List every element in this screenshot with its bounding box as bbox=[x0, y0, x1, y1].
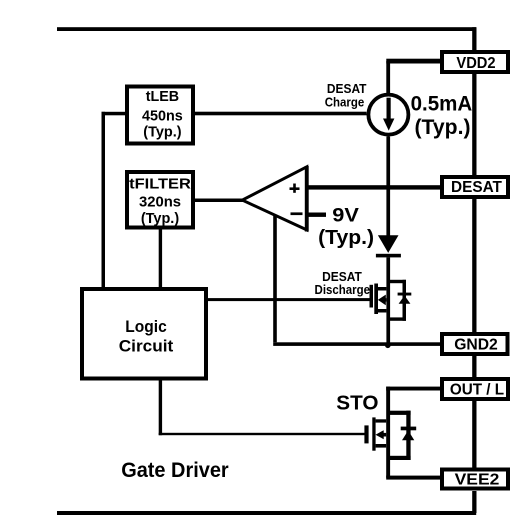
svg-text:(Typ.): (Typ.) bbox=[318, 227, 374, 249]
wire Logic Circuit bottom vertical bbox=[159, 381, 162, 436]
wire STO gate horizontal bbox=[159, 433, 366, 435]
svg-text:tFILTER: tFILTER bbox=[129, 176, 191, 193]
wire bus VDD2 to DESAT bbox=[472, 74, 476, 177]
pin DESAT bbox=[442, 177, 508, 197]
wire comparator - input stub to 9V bbox=[306, 213, 326, 217]
wire current source bottom to diode bbox=[386, 137, 390, 236]
wire left vertical tLEB to Logic Circuit bbox=[102, 112, 106, 287]
block tLEB 450ns (Typ.) bbox=[127, 87, 193, 144]
label 9V (Typ.) reference bbox=[318, 205, 374, 248]
wire current source top vertical bbox=[386, 61, 390, 94]
label 0.5mA (Typ.) bbox=[411, 93, 473, 139]
wire bus OUT/L to VEE2 bbox=[472, 401, 476, 470]
pin VEE2 bbox=[442, 470, 508, 489]
svg-text:Discharge: Discharge bbox=[315, 282, 371, 297]
wire STO source to VEE2 pin bbox=[386, 476, 442, 480]
svg-text:Charge: Charge bbox=[325, 95, 365, 110]
wire tFILTER bottom to Logic Circuit bbox=[159, 230, 162, 288]
wire comparator output to tFILTER bbox=[195, 199, 243, 203]
current source I1 DESAT charge 0.5mA bbox=[368, 95, 408, 135]
svg-text:Gate Driver: Gate Driver bbox=[121, 459, 229, 482]
svg-text:OUT / L: OUT / L bbox=[450, 382, 504, 399]
wire current source to VDD2 pin bbox=[386, 59, 442, 64]
wire STO drain to OUT/L pin bbox=[386, 387, 442, 391]
wire comparator + input to DESAT pin bbox=[306, 185, 442, 189]
wire tLEB left stub bbox=[102, 112, 127, 116]
wire bottom supply rail bbox=[57, 511, 476, 515]
block tFILTER 320ns (Typ.) bbox=[127, 172, 193, 228]
svg-text:DESAT: DESAT bbox=[327, 81, 367, 96]
wire top supply rail bbox=[57, 27, 476, 31]
label DESAT Discharge bbox=[315, 269, 371, 297]
svg-text:9V: 9V bbox=[332, 205, 359, 226]
pin GND2 bbox=[442, 334, 508, 354]
wire bus GND2 to OUT/L bbox=[472, 356, 476, 379]
pin VDD2 bbox=[442, 52, 508, 72]
svg-text:DESAT: DESAT bbox=[451, 179, 502, 196]
op-amp comparator U2 bbox=[242, 166, 308, 232]
wire diode to GND2 line (DESAT discharge drain/source trunk) bbox=[386, 257, 390, 345]
label DESAT Charge bbox=[325, 81, 367, 110]
pin OUT / L bbox=[442, 379, 508, 399]
block Logic Circuit U1 bbox=[82, 289, 206, 379]
svg-text:VEE2: VEE2 bbox=[455, 472, 500, 489]
wire GND2 net horizontal bbox=[273, 342, 440, 346]
svg-text:Logic: Logic bbox=[125, 317, 167, 336]
transistor Q1 DESAT discharge MOSFET bbox=[370, 280, 412, 321]
svg-text:320ns: 320ns bbox=[139, 194, 181, 211]
junction dot DESAT discharge source to GND2 bbox=[385, 343, 391, 349]
svg-text:VDD2: VDD2 bbox=[456, 55, 495, 72]
svg-text:0.5mA: 0.5mA bbox=[411, 93, 473, 116]
svg-text:GND2: GND2 bbox=[454, 337, 498, 354]
svg-text:(Typ.): (Typ.) bbox=[415, 116, 471, 139]
diode D1 blanking bbox=[376, 235, 401, 257]
svg-text:(Typ.): (Typ.) bbox=[143, 123, 181, 140]
svg-text:STO: STO bbox=[336, 392, 378, 415]
wire Logic Circuit right to DESAT discharge gate bbox=[208, 298, 370, 301]
svg-text:Circuit: Circuit bbox=[119, 336, 174, 355]
wire bus VEE2 to bottom rail bbox=[472, 491, 476, 513]
svg-text:(Typ.): (Typ.) bbox=[141, 210, 179, 227]
wire 9V reference to GND2 vertical bbox=[273, 214, 277, 342]
transistor Q2 STO MOSFET bbox=[364, 387, 416, 478]
wire bus DESAT to GND2 bbox=[472, 199, 476, 334]
svg-text:tLEB: tLEB bbox=[146, 88, 180, 105]
wire drop from top rail to VDD2 pin bbox=[472, 27, 476, 51]
wire tLEB right to current source bbox=[195, 112, 367, 116]
svg-text:450ns: 450ns bbox=[142, 108, 183, 125]
